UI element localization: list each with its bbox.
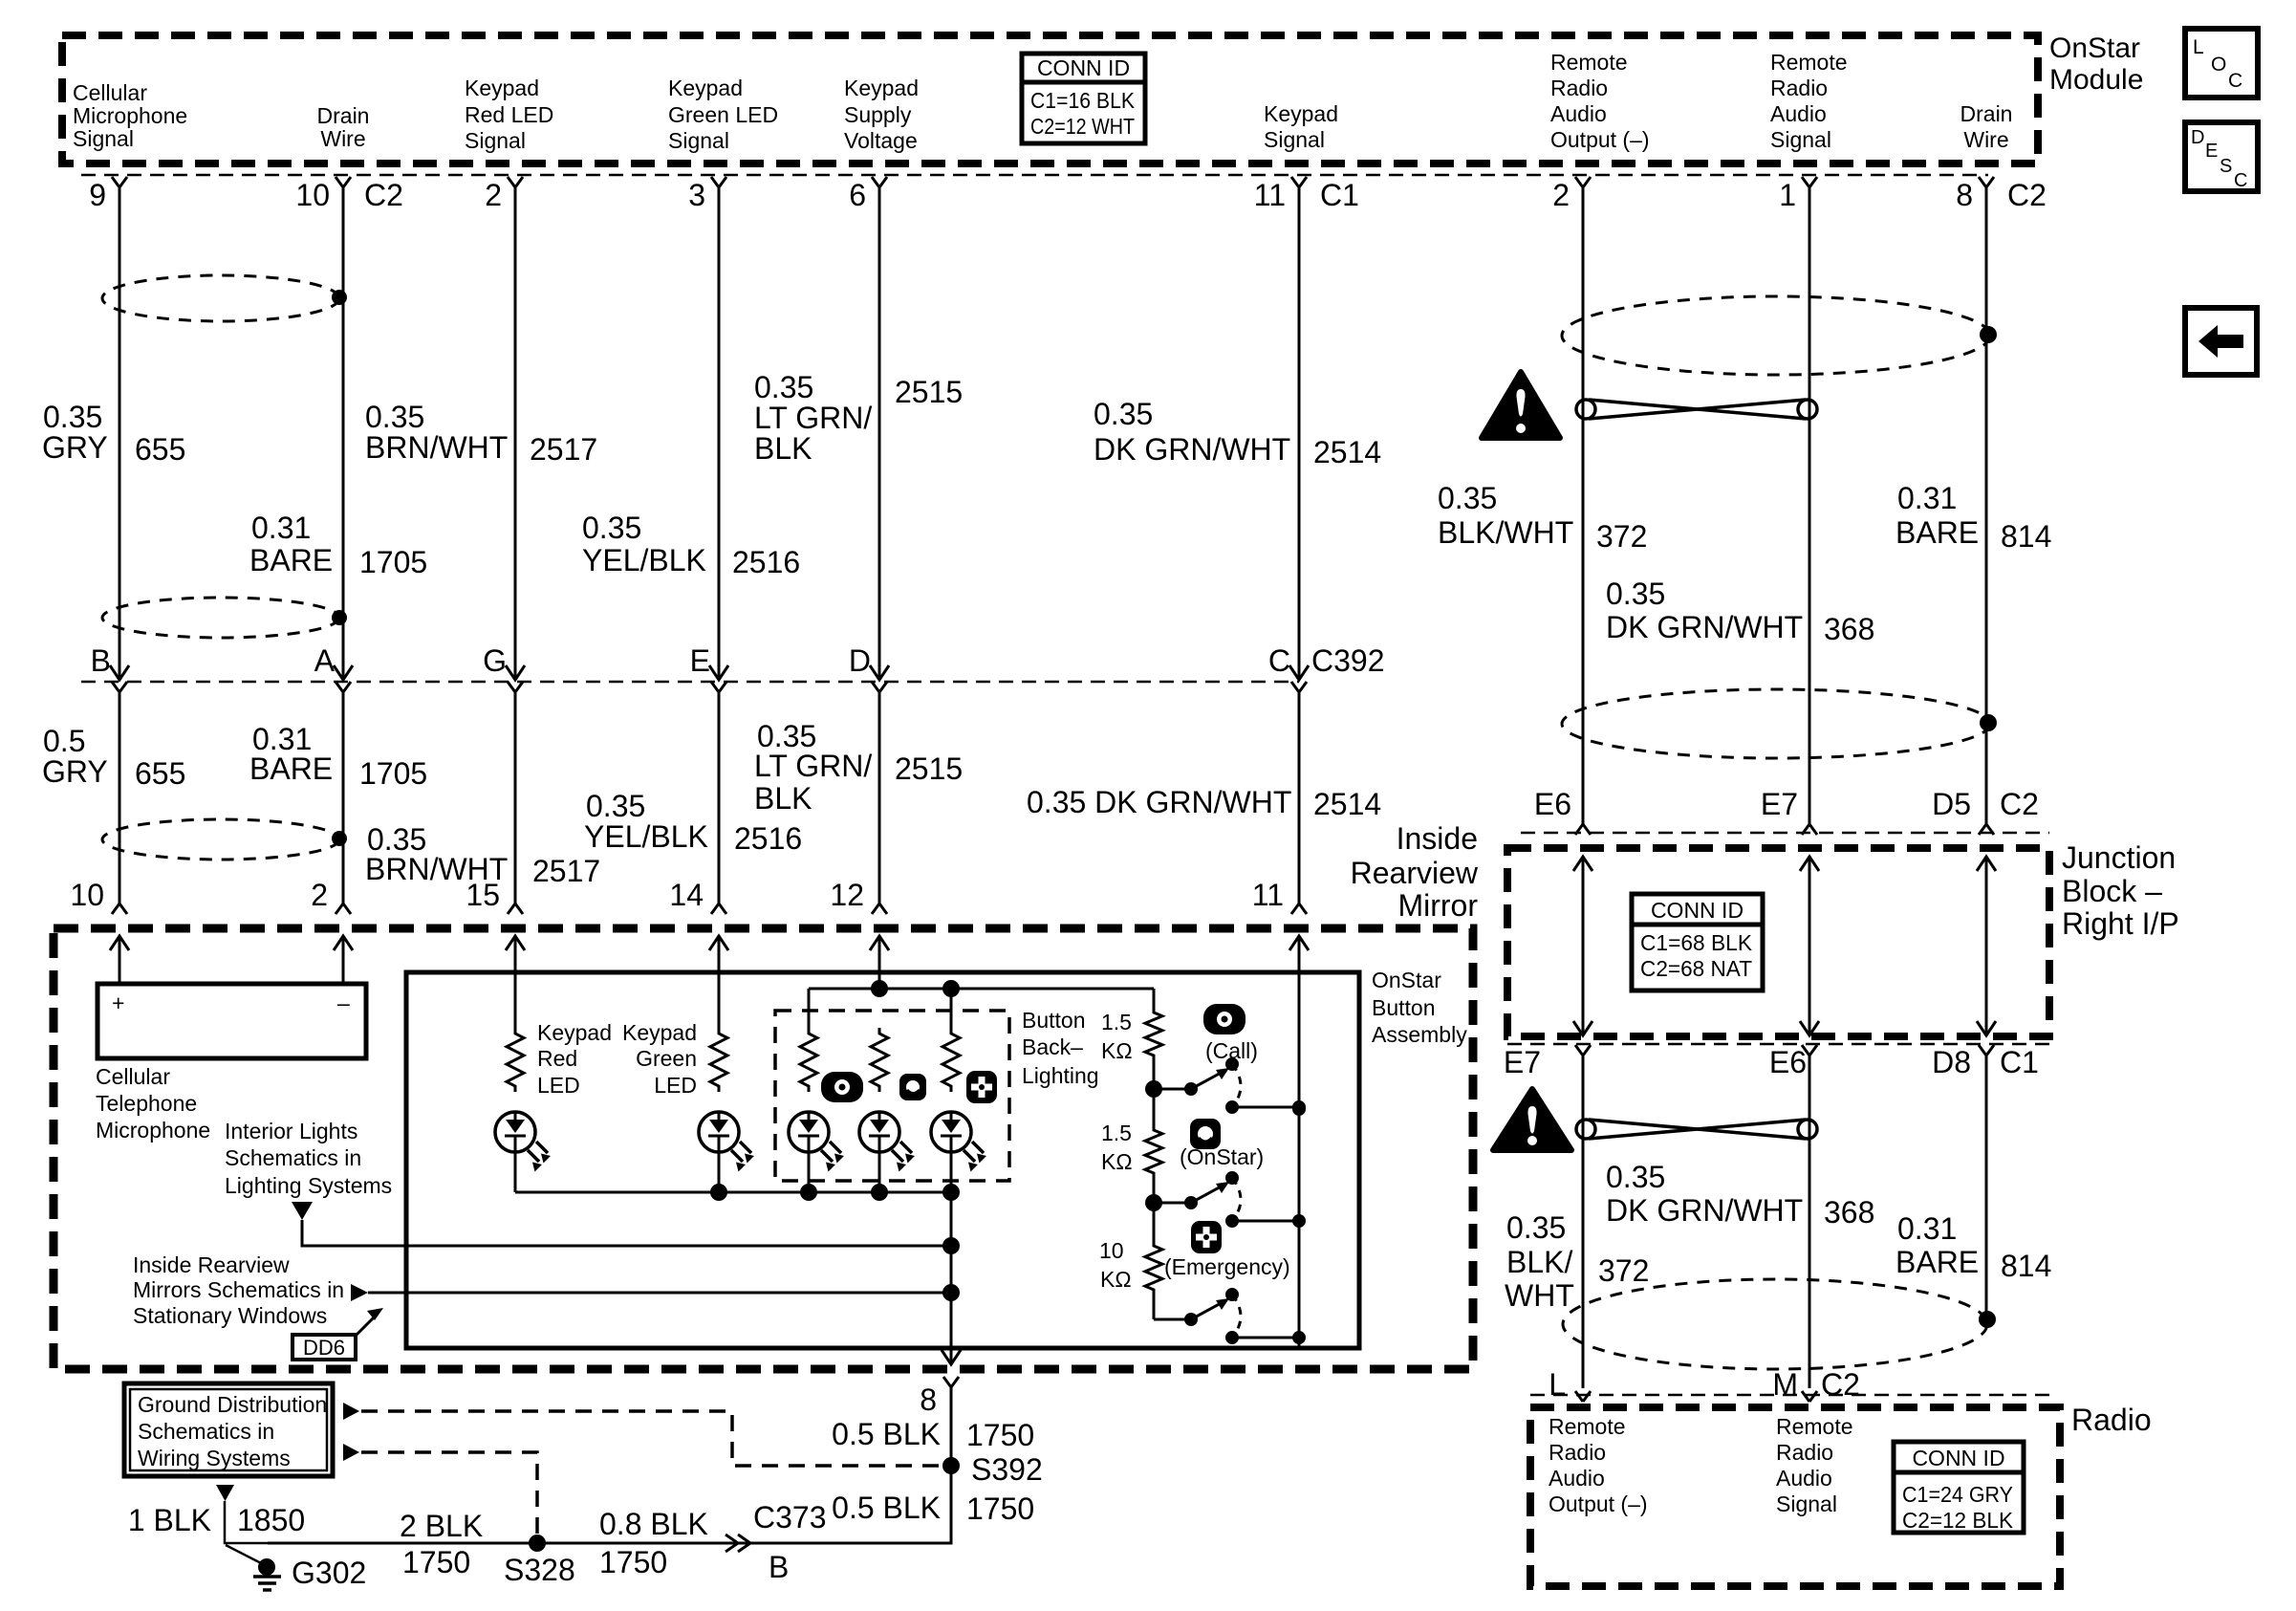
svg-text:S: S — [2220, 156, 2232, 177]
svg-text:814: 814 — [2001, 519, 2051, 554]
svg-text:E6: E6 — [1769, 1045, 1807, 1079]
twisted pair symbol (lower) — [1576, 1120, 1817, 1139]
svg-text:814: 814 — [2001, 1249, 2051, 1283]
svg-text:E: E — [2205, 141, 2218, 162]
svg-text:1705: 1705 — [359, 545, 427, 579]
svg-text:G: G — [483, 643, 507, 678]
svg-text:8: 8 — [920, 1382, 937, 1417]
svg-text:0.31: 0.31 — [251, 511, 311, 545]
svg-text:DK GRN/WHT: DK GRN/WHT — [1606, 1193, 1803, 1228]
svg-text:2: 2 — [311, 878, 328, 912]
warning triangle (upper) — [1482, 372, 1560, 438]
svg-text:D8: D8 — [1932, 1045, 1971, 1079]
svg-text:G302: G302 — [292, 1556, 366, 1590]
switch resistor chain — [1153, 989, 1156, 1007]
svg-text:2517: 2517 — [530, 432, 597, 467]
wire crossing mirror box top x=539 — [506, 936, 525, 950]
resistor 1.5 K ohm (Call) — [1145, 1007, 1162, 1061]
svg-text:C373: C373 — [753, 1500, 827, 1535]
svg-text:DrainWire: DrainWire — [1960, 101, 2013, 152]
wire x=1359 module to C392 — [1298, 187, 1301, 680]
svg-text:0.8 BLK: 0.8 BLK — [599, 1507, 708, 1541]
resistor 1.5 K ohm (OnStar) — [1145, 1124, 1162, 1179]
DD6 box — [292, 1335, 356, 1360]
svg-text:0.31: 0.31 — [1897, 481, 1957, 515]
wire crossing mirror box top x=920 — [870, 936, 889, 950]
Ground Distribution Schematics box — [124, 1383, 333, 1476]
svg-text:11: 11 — [1252, 878, 1284, 912]
svg-text:DD6: DD6 — [303, 1336, 345, 1360]
svg-text:C2=12 BLK: C2=12 BLK — [1902, 1508, 2014, 1533]
svg-text:2514: 2514 — [1313, 787, 1381, 821]
radio connector line — [1530, 1394, 2053, 1397]
shield ellipse (right, upper) — [1562, 296, 1990, 375]
CONN ID box (junction block) — [1632, 894, 1763, 991]
svg-text:KΩ: KΩ — [1101, 1038, 1133, 1063]
svg-text:KΩ: KΩ — [1100, 1267, 1132, 1292]
svg-text:1 BLK: 1 BLK — [128, 1503, 211, 1537]
svg-text:C2=12 WHT: C2=12 WHT — [1030, 114, 1135, 139]
switch icons and labels — [1203, 1004, 1245, 1034]
connector socket at module, wire x=1359 — [1291, 177, 1307, 187]
svg-text:C2: C2 — [1821, 1367, 1860, 1402]
keypad signal return crossing mirror box bottom — [942, 1350, 961, 1364]
svg-text:1750: 1750 — [402, 1545, 470, 1579]
svg-text:BARE: BARE — [249, 543, 333, 577]
svg-text:KeypadSupplyVoltage: KeypadSupplyVoltage — [844, 76, 919, 153]
switch (Emergency) — [1154, 1318, 1191, 1321]
svg-text:C392: C392 — [1311, 643, 1385, 678]
svg-text:C1=16 BLK: C1=16 BLK — [1030, 88, 1136, 113]
svg-text:0.5: 0.5 — [43, 724, 85, 758]
svg-text:C1: C1 — [2000, 1045, 2039, 1079]
svg-text:BRN/WHT: BRN/WHT — [365, 430, 508, 465]
svg-text:O: O — [2211, 54, 2226, 76]
backlight branch x=995 — [942, 1028, 960, 1092]
keypad green LED — [699, 1112, 754, 1172]
interior lights wire — [302, 1220, 951, 1246]
svg-text:E: E — [690, 643, 710, 678]
svg-text:CONN ID: CONN ID — [1651, 898, 1744, 923]
Radio box — [1530, 1407, 2060, 1586]
supply bus top — [809, 988, 1154, 991]
svg-text:C1: C1 — [1320, 178, 1359, 212]
connector C373 — [726, 1535, 750, 1552]
svg-text:C2: C2 — [2000, 787, 2039, 821]
svg-text:1750: 1750 — [599, 1545, 667, 1579]
wire 7 JB to radio — [1582, 1056, 1585, 1388]
svg-text:E6: E6 — [1534, 787, 1571, 821]
svg-text:2516: 2516 — [734, 821, 802, 856]
connector socket at module, wire x=1656 — [1575, 177, 1591, 187]
wire through junction block x=2078 — [1977, 857, 1996, 871]
svg-text:L: L — [1549, 1367, 1566, 1402]
svg-text:C2=68 NAT: C2=68 NAT — [1640, 956, 1752, 981]
svg-text:D5: D5 — [1932, 787, 1971, 821]
svg-text:BLK: BLK — [754, 781, 812, 816]
connector socket at module, wire x=125 — [112, 177, 127, 187]
interior lights reference arrow — [292, 1202, 313, 1220]
ground G302 — [226, 1545, 265, 1565]
wire crossing mirror box top x=125 — [110, 936, 129, 950]
connector socket at module, wire x=2078 — [1979, 177, 1994, 187]
svg-text:LT GRN/: LT GRN/ — [754, 749, 872, 783]
svg-text:BLK: BLK — [754, 431, 812, 466]
wire x=359 module to C392 — [342, 187, 345, 680]
svg-text:2515: 2515 — [895, 375, 963, 409]
DESC reference box — [2185, 122, 2258, 191]
svg-text:0.35: 0.35 — [1094, 397, 1153, 431]
wire 9 JB to shield dot — [1985, 1056, 1988, 1319]
keypad signal bus — [1298, 1109, 1301, 1346]
svg-text:0.35: 0.35 — [586, 789, 645, 823]
back-arrow box — [2185, 308, 2257, 375]
svg-text:2516: 2516 — [732, 545, 800, 579]
CONN ID box (OnStar module) — [1022, 54, 1145, 143]
wire crossing mirror box top x=359 — [334, 936, 353, 950]
Junction Block box — [1507, 848, 2049, 1036]
wire crossing mirror box top x=1359 — [1289, 936, 1309, 950]
DD6 reference arrow — [351, 1284, 368, 1301]
connector socket at module, wire x=920 — [872, 177, 887, 187]
svg-text:2: 2 — [1552, 178, 1570, 212]
svg-text:0.35: 0.35 — [582, 511, 641, 545]
svg-text:C1=24 GRY: C1=24 GRY — [1902, 1482, 2013, 1507]
backlight branch x=920 — [871, 1028, 888, 1092]
CONN ID box (radio) — [1894, 1442, 2024, 1533]
svg-text:E7: E7 — [1504, 1045, 1541, 1079]
svg-text:DK GRN/WHT: DK GRN/WHT — [1094, 432, 1290, 467]
svg-text:Radio: Radio — [2071, 1403, 2152, 1437]
svg-text:2514: 2514 — [1313, 435, 1381, 469]
svg-text:B: B — [769, 1550, 789, 1584]
wire crossing mirror box top x=752 — [709, 936, 728, 950]
splice S392 — [942, 1457, 960, 1474]
svg-text:BARE: BARE — [1895, 515, 1979, 550]
svg-text:15: 15 — [466, 878, 500, 912]
svg-text:0.35 DK GRN/WHT: 0.35 DK GRN/WHT — [1027, 785, 1291, 819]
ground bus wire — [268, 1542, 951, 1545]
svg-text:6: 6 — [849, 178, 866, 212]
connector socket at module, wire x=539 — [508, 177, 523, 187]
ground box down arrow — [216, 1485, 234, 1501]
svg-text:B: B — [91, 643, 111, 678]
svg-text:8: 8 — [1956, 178, 1973, 212]
svg-text:(Call): (Call) — [1205, 1038, 1258, 1063]
svg-text:372: 372 — [1596, 519, 1647, 554]
svg-text:12: 12 — [830, 878, 864, 912]
svg-text:655: 655 — [135, 432, 185, 467]
wire through junction block x=1893 — [1800, 857, 1819, 871]
svg-text:1750: 1750 — [966, 1491, 1034, 1526]
backlight branch x=846 — [800, 1028, 817, 1092]
svg-text:D: D — [849, 643, 871, 678]
svg-text:368: 368 — [1824, 1195, 1874, 1230]
svg-text:10: 10 — [1099, 1238, 1124, 1263]
svg-text:(OnStar): (OnStar) — [1180, 1144, 1264, 1169]
keypad red LED — [495, 1112, 551, 1172]
keypad green LED resistor — [710, 1028, 727, 1092]
svg-text:0.35: 0.35 — [1606, 577, 1665, 611]
svg-text:C: C — [2234, 170, 2247, 191]
svg-text:DrainWire: DrainWire — [317, 103, 370, 151]
svg-text:2 BLK: 2 BLK — [400, 1509, 483, 1543]
svg-text:1705: 1705 — [359, 756, 427, 791]
svg-text:C2: C2 — [2007, 178, 2047, 212]
svg-text:S328: S328 — [504, 1553, 575, 1587]
svg-text:3: 3 — [688, 178, 705, 212]
svg-text:0.31: 0.31 — [1897, 1211, 1957, 1246]
svg-text:0.5 BLK: 0.5 BLK — [832, 1417, 941, 1451]
wire 9 (drain) module to JB — [1985, 187, 1988, 824]
wire x=539 module to C392 — [514, 187, 517, 680]
svg-text:GRY: GRY — [42, 754, 108, 789]
svg-text:OnStar: OnStar — [2049, 33, 2140, 64]
svg-text:372: 372 — [1598, 1253, 1649, 1288]
svg-text:1: 1 — [1779, 178, 1796, 212]
keypad red LED resistor — [507, 1028, 524, 1092]
svg-text:0.35: 0.35 — [43, 400, 102, 434]
wire 8 (radio audio signal) module to JB — [1809, 187, 1811, 824]
wire x=752 module to C392 — [718, 187, 721, 680]
svg-text:C: C — [1268, 643, 1290, 678]
svg-text:+: + — [112, 991, 124, 1015]
ground ref arrow 2 — [343, 1444, 359, 1461]
svg-text:BARE: BARE — [249, 751, 333, 786]
svg-text:BARE: BARE — [1895, 1245, 1979, 1279]
svg-text:1750: 1750 — [966, 1418, 1034, 1452]
svg-text:14: 14 — [669, 878, 704, 912]
wire 8 JB to radio — [1809, 1056, 1811, 1388]
DD6 wire — [368, 1292, 951, 1295]
cellular telephone microphone box — [97, 984, 366, 1058]
svg-text:2515: 2515 — [895, 751, 963, 786]
svg-text:JunctionBlock –Right I/P: JunctionBlock –Right I/P — [2062, 840, 2179, 941]
svg-text:0.35: 0.35 — [754, 370, 813, 404]
svg-text:368: 368 — [1824, 612, 1874, 646]
svg-text:C1=68 BLK: C1=68 BLK — [1640, 930, 1753, 955]
wire through junction block x=1656 — [1573, 857, 1592, 871]
svg-text:S392: S392 — [971, 1452, 1043, 1487]
svg-text:9: 9 — [89, 178, 106, 212]
Button Back-Lighting dashed box — [775, 1011, 1009, 1181]
wire x=125 module to C392 — [119, 187, 121, 680]
svg-text:1.5: 1.5 — [1101, 1121, 1132, 1145]
svg-text:Module: Module — [2049, 64, 2143, 96]
svg-text:WHT: WHT — [1505, 1278, 1574, 1313]
svg-text:D: D — [2191, 127, 2204, 148]
svg-text:DK GRN/WHT: DK GRN/WHT — [1606, 610, 1803, 644]
svg-text:L: L — [2193, 36, 2204, 58]
svg-text:10: 10 — [70, 878, 104, 912]
shield ellipse 3 (left pair) — [102, 819, 339, 860]
LOC reference box — [2185, 29, 2258, 98]
shield ellipse (right, lower) — [1563, 1279, 1987, 1369]
svg-text:1.5: 1.5 — [1101, 1010, 1132, 1034]
connector socket at module, wire x=752 — [711, 177, 726, 187]
backlight icons — [821, 1072, 863, 1102]
svg-text:BLK/WHT: BLK/WHT — [1438, 515, 1573, 550]
backlight ground line down — [950, 1192, 953, 1364]
svg-text:CONN ID: CONN ID — [1037, 55, 1130, 80]
switch (Call) — [1145, 1080, 1162, 1098]
svg-text:10: 10 — [295, 178, 330, 212]
wire 7 (radio audio output) module to JB — [1582, 187, 1585, 824]
svg-text:0.5 BLK: 0.5 BLK — [832, 1491, 941, 1525]
svg-text:M: M — [1772, 1367, 1798, 1402]
switch (OnStar) — [1145, 1194, 1162, 1211]
shield ellipse (right, middle) — [1562, 689, 1990, 758]
svg-text:–: – — [337, 991, 350, 1015]
svg-text:11: 11 — [1254, 178, 1286, 212]
svg-text:GRY: GRY — [42, 430, 108, 465]
svg-text:C2: C2 — [364, 178, 403, 212]
svg-text:655: 655 — [135, 756, 185, 791]
Inside Rearview Mirror box — [54, 928, 1473, 1369]
svg-text:LT GRN/: LT GRN/ — [754, 401, 872, 435]
svg-text:0.35: 0.35 — [365, 400, 424, 434]
OnStar Module box — [62, 35, 2038, 163]
warning triangle (lower) — [1493, 1089, 1571, 1150]
svg-text:CONN ID: CONN ID — [1912, 1446, 2004, 1470]
svg-text:BLK/: BLK/ — [1506, 1245, 1572, 1279]
svg-text:(Emergency): (Emergency) — [1164, 1254, 1290, 1279]
module connector face C1/C2 — [81, 174, 1988, 177]
shield ellipse 2 (left pair) — [102, 598, 339, 638]
wire x=920 module to C392 — [878, 187, 881, 680]
svg-text:2517: 2517 — [532, 854, 600, 888]
LED return bus — [515, 1191, 951, 1194]
OnStar Button Assembly box — [406, 972, 1359, 1348]
JB connector line top — [1521, 832, 2049, 835]
twisted pair symbol (upper) — [1576, 400, 1817, 419]
svg-text:A: A — [314, 643, 336, 678]
JB connector line bottom — [1507, 1043, 2049, 1046]
svg-text:2: 2 — [485, 178, 502, 212]
svg-text:YEL/BLK: YEL/BLK — [582, 543, 706, 577]
svg-text:0.35: 0.35 — [1506, 1210, 1566, 1245]
svg-text:E7: E7 — [1761, 787, 1798, 821]
svg-text:0.35: 0.35 — [1438, 481, 1497, 515]
connector socket at module, wire x=359 — [336, 177, 351, 187]
svg-text:1850: 1850 — [237, 1503, 305, 1537]
shield ellipse 1 (left pair) — [102, 275, 339, 321]
ground ref arrow 1 — [343, 1403, 359, 1420]
connector socket at module, wire x=1893 — [1802, 177, 1817, 187]
svg-text:YEL/BLK: YEL/BLK — [584, 819, 708, 854]
C392 connector line — [81, 681, 1299, 684]
svg-text:C: C — [2228, 70, 2242, 92]
splice S328 — [529, 1535, 546, 1552]
svg-text:KΩ: KΩ — [1101, 1149, 1133, 1174]
svg-text:0.35: 0.35 — [1606, 1160, 1665, 1194]
resistor 10 K ohm (Emergency) — [1145, 1240, 1162, 1295]
